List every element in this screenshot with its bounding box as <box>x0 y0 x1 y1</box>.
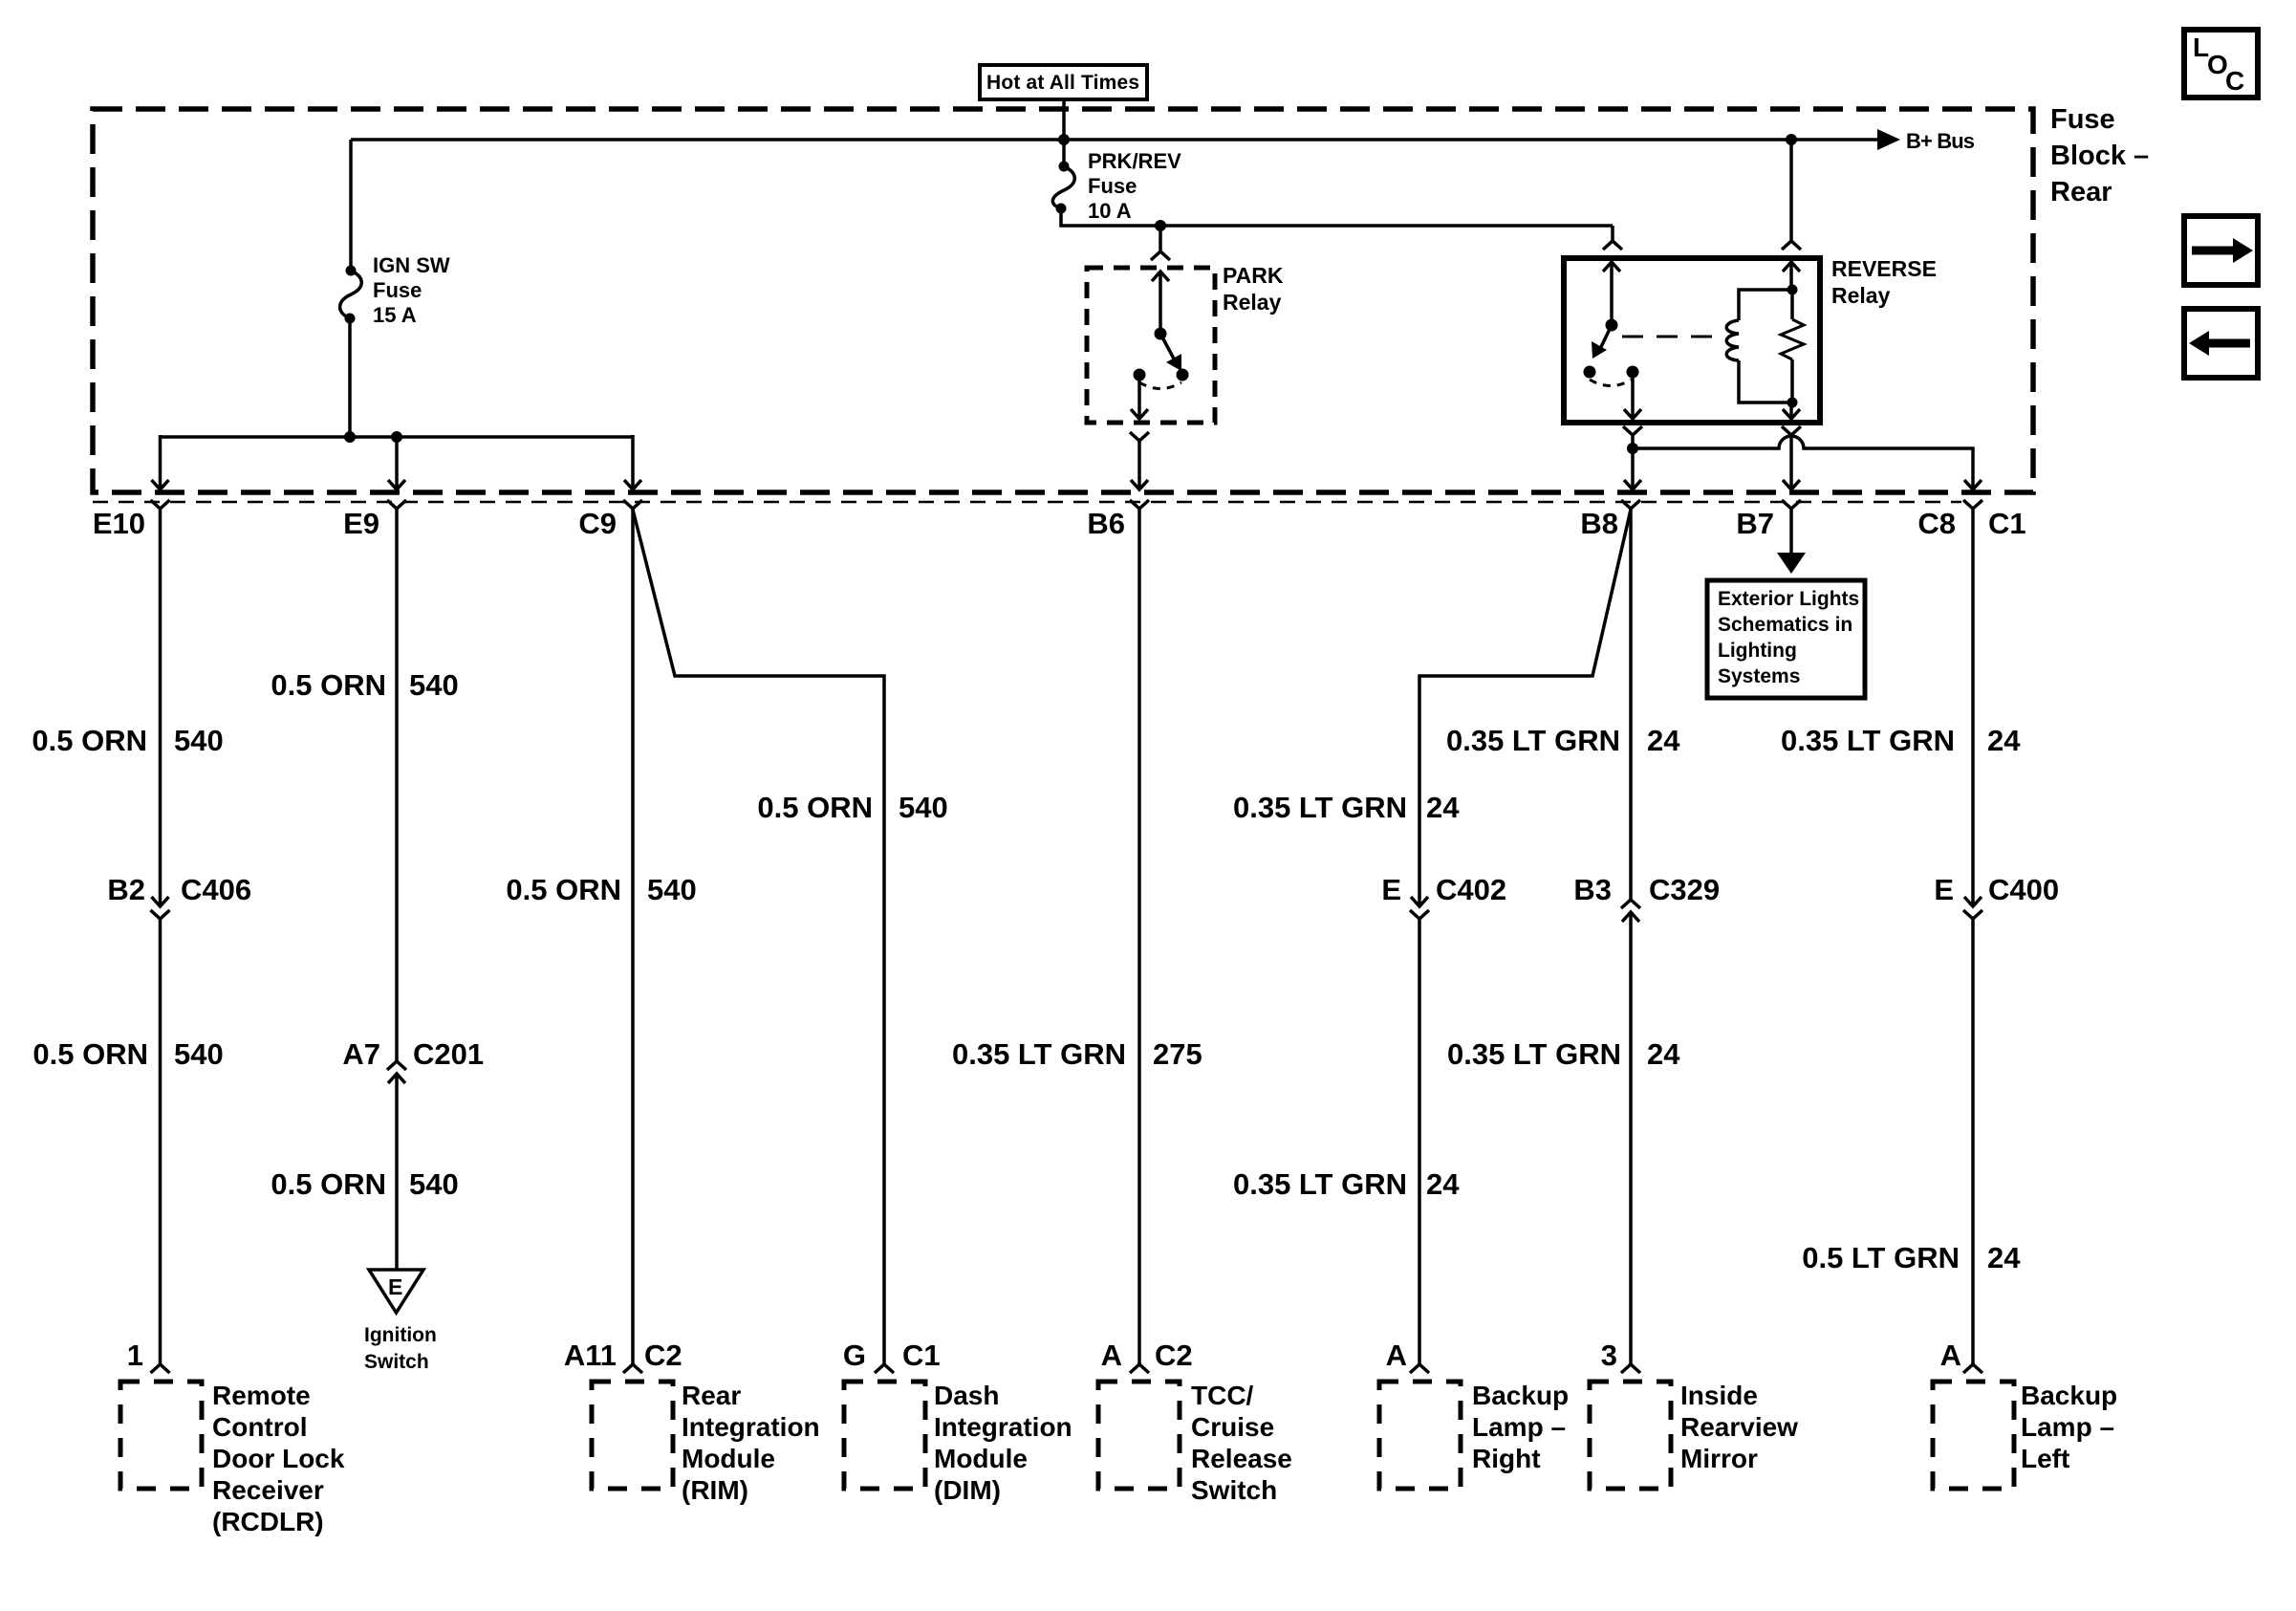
svg-text:C2: C2 <box>644 1339 682 1372</box>
svg-text:24: 24 <box>1426 791 1460 824</box>
wire E9 column <box>387 509 406 1270</box>
svg-text:540: 540 <box>174 1037 224 1071</box>
pin 3 inside rearview mirror <box>1601 1339 1617 1372</box>
svg-text:C: C <box>2225 66 2244 96</box>
svg-text:B8: B8 <box>1580 507 1618 540</box>
wire from Hot box to bus <box>1062 99 1066 140</box>
svg-text:Fuse: Fuse <box>373 278 422 302</box>
svg-text:0.35 LT GRN: 0.35 LT GRN <box>1233 1167 1407 1201</box>
svg-text:E10: E10 <box>93 507 145 540</box>
svg-text:24: 24 <box>1987 1241 2021 1274</box>
svg-text:B7: B7 <box>1736 507 1774 540</box>
pin A backup lamp right <box>1386 1339 1407 1372</box>
svg-text:Cruise: Cruise <box>1191 1412 1274 1442</box>
svg-text:Hot at All Times: Hot at All Times <box>986 72 1139 94</box>
svg-text:C9: C9 <box>578 507 617 540</box>
label 0.35 LT GRN 24 (B8 upper) <box>1446 724 1680 757</box>
svg-text:C406: C406 <box>181 873 251 906</box>
svg-text:Left: Left <box>2021 1444 2069 1473</box>
label 0.5 LT GRN 24 (C1 lower) <box>1802 1241 2021 1274</box>
svg-text:Lamp –: Lamp – <box>2021 1412 2114 1442</box>
svg-text:15 A: 15 A <box>373 303 417 327</box>
component TCC/Cruise Release Switch <box>1098 1381 1292 1505</box>
svg-text:PARK: PARK <box>1223 263 1284 288</box>
wire bus down to IGN SW fuse <box>349 140 353 271</box>
svg-text:Fuse: Fuse <box>1088 174 1137 198</box>
label 0.35 LT GRN 24 (lamp right upper) <box>1233 791 1460 824</box>
B+ bus wire <box>351 138 1879 142</box>
wire IGN SW fuse to distribution <box>348 318 352 437</box>
svg-text:0.5 ORN: 0.5 ORN <box>757 791 873 824</box>
connector E C402 <box>1381 873 1506 906</box>
wire junction to C1 with hop over B7 <box>1633 436 1973 490</box>
svg-text:540: 540 <box>647 873 697 906</box>
svg-text:C329: C329 <box>1649 873 1720 906</box>
svg-text:TCC/: TCC/ <box>1191 1381 1254 1410</box>
connector chevrons below edge <box>151 500 1983 509</box>
label 0.5 ORN 540 (E9 lower) <box>271 1167 458 1201</box>
svg-text:C2: C2 <box>1155 1339 1193 1372</box>
fuse IGN SW 15 A <box>340 253 450 327</box>
node: distribution/E9 junction <box>391 431 402 443</box>
svg-text:540: 540 <box>174 724 224 757</box>
svg-text:0.35 LT GRN: 0.35 LT GRN <box>1447 1037 1621 1071</box>
svg-text:C1: C1 <box>902 1339 941 1372</box>
arrows at fuse block edge E10 E9 C9 <box>152 480 642 490</box>
wire C1 column to backup lamp left <box>1963 509 1982 1373</box>
svg-text:Relay: Relay <box>1223 290 1282 315</box>
ground symbol E Ignition Switch <box>364 1270 437 1373</box>
fuse PRK/REV 10 A <box>1052 140 1181 223</box>
svg-text:Right: Right <box>1472 1444 1541 1473</box>
B+ bus arrowhead and label <box>1877 129 1975 153</box>
svg-text:IGN SW: IGN SW <box>373 253 450 277</box>
svg-text:C8: C8 <box>1917 507 1956 540</box>
REVERSE relay actuation link (dashed) <box>1622 336 1723 338</box>
svg-text:Relay: Relay <box>1831 283 1891 308</box>
svg-text:Schematics in: Schematics in <box>1718 614 1852 636</box>
connector row labels under fuse block <box>93 507 2026 540</box>
svg-text:Block –: Block – <box>2050 141 2149 171</box>
svg-text:0.5 ORN: 0.5 ORN <box>271 1167 386 1201</box>
connector B3 C329 <box>1573 873 1720 906</box>
svg-text:Control: Control <box>212 1412 308 1442</box>
svg-text:Exterior Lights: Exterior Lights <box>1718 588 1859 610</box>
node: bus/B7 junction <box>1786 134 1797 145</box>
REVERSE relay coil branch <box>1726 262 1800 408</box>
svg-text:A11: A11 <box>564 1339 617 1372</box>
svg-text:C201: C201 <box>413 1037 484 1071</box>
PARK relay switch <box>1134 272 1189 389</box>
label 0.35 LT GRN 24 (C1 upper) <box>1781 724 2021 757</box>
svg-text:REVERSE: REVERSE <box>1831 256 1937 281</box>
svg-text:Backup: Backup <box>2021 1381 2117 1410</box>
svg-text:Lamp –: Lamp – <box>1472 1412 1566 1442</box>
svg-text:Receiver: Receiver <box>212 1475 324 1505</box>
svg-text:C1: C1 <box>1988 507 2026 540</box>
label 0.5 ORN 540 (E10 upper) <box>32 724 223 757</box>
wire B7 column to exterior lights reference <box>1777 509 1806 574</box>
label 0.5 ORN 540 (E10 lower) <box>32 1037 223 1071</box>
label 0.35 LT GRN 24 (lamp right lower) <box>1233 1167 1460 1201</box>
pins G C1 DIM <box>843 1339 941 1372</box>
svg-text:24: 24 <box>1647 724 1680 757</box>
wire feed to REVERSE relay switch <box>1603 226 1622 250</box>
relay REVERSE (solid box) <box>1564 256 1937 423</box>
svg-text:Integration: Integration <box>682 1412 820 1442</box>
svg-text:540: 540 <box>409 668 459 702</box>
svg-text:3: 3 <box>1601 1339 1617 1372</box>
svg-text:G: G <box>843 1339 866 1372</box>
svg-text:Inside: Inside <box>1680 1381 1758 1410</box>
pins A C2 TCC <box>1101 1339 1193 1372</box>
svg-text:0.35 LT GRN: 0.35 LT GRN <box>1233 791 1407 824</box>
wire REVERSE coil output B7 <box>1782 403 1801 490</box>
svg-text:Rear: Rear <box>2050 177 2112 207</box>
svg-text:Remote: Remote <box>212 1381 311 1410</box>
wire bus down to REVERSE relay coil B7 <box>1782 140 1801 250</box>
svg-text:540: 540 <box>899 791 948 824</box>
component Backup Lamp - Left <box>1933 1381 2117 1489</box>
wire REVERSE switch output <box>1623 372 1642 448</box>
component Rear Integration Module (RIM) <box>592 1381 820 1505</box>
svg-text:0.5 ORN: 0.5 ORN <box>32 724 147 757</box>
wire PARK relay output B6 <box>1130 375 1149 490</box>
svg-text:Backup: Backup <box>1472 1381 1569 1410</box>
component Dash Integration Module (DIM) <box>844 1381 1072 1505</box>
svg-text:B6: B6 <box>1087 507 1125 540</box>
wire C9 column to RIM <box>623 509 642 1373</box>
label Fuse Block - Rear <box>2050 104 2149 207</box>
svg-text:Release: Release <box>1191 1444 1292 1473</box>
svg-text:(RCDLR): (RCDLR) <box>212 1507 324 1536</box>
svg-text:A: A <box>1386 1339 1407 1372</box>
svg-text:C400: C400 <box>1988 873 2059 906</box>
distribution wire to E10 E9 C9 <box>161 435 634 490</box>
svg-text:Switch: Switch <box>1191 1475 1277 1505</box>
svg-text:0.5 ORN: 0.5 ORN <box>506 873 621 906</box>
svg-text:B2: B2 <box>107 873 145 906</box>
svg-text:Fuse: Fuse <box>2050 104 2115 135</box>
fuse block - rear (dashed outline) <box>93 109 2033 492</box>
label 0.5 ORN 540 (C9) <box>506 873 696 906</box>
svg-text:1: 1 <box>127 1339 143 1372</box>
svg-text:Module: Module <box>934 1444 1028 1473</box>
REVERSE relay switch <box>1584 262 1639 386</box>
connector face line (thin dashed) <box>93 501 1961 504</box>
svg-text:Mirror: Mirror <box>1680 1444 1758 1473</box>
wire E10 column <box>151 509 170 1373</box>
node: park relay feed junction <box>1155 220 1166 231</box>
node: B8 junction <box>1627 443 1638 454</box>
svg-text:A: A <box>1101 1339 1122 1372</box>
component Inside Rearview Mirror <box>1590 1381 1798 1489</box>
svg-text:(RIM): (RIM) <box>682 1475 748 1505</box>
svg-text:24: 24 <box>1647 1037 1680 1071</box>
label 0.5 ORN 540 (E9 upper) <box>271 668 458 702</box>
svg-text:10 A: 10 A <box>1088 199 1132 223</box>
svg-text:C402: C402 <box>1436 873 1506 906</box>
pin A backup lamp left <box>1940 1339 1961 1372</box>
component Remote Control Door Lock Receiver (RCDLR) <box>120 1381 345 1536</box>
wire PRK/REV fuse output to relays <box>1061 208 1613 226</box>
Hot at All Times box <box>980 65 1147 99</box>
svg-text:E: E <box>1381 873 1401 906</box>
svg-text:Integration: Integration <box>934 1412 1072 1442</box>
wire B8 to edge <box>1624 448 1641 490</box>
svg-text:A7: A7 <box>342 1037 380 1071</box>
svg-text:0.5 ORN: 0.5 ORN <box>271 668 386 702</box>
node: bus/hot junction <box>1058 134 1070 145</box>
svg-text:0.35 LT GRN: 0.35 LT GRN <box>1446 724 1620 757</box>
label 0.35 LT GRN 275 (B6) <box>952 1037 1202 1071</box>
label 0.35 LT GRN 24 (B8 lower) <box>1447 1037 1680 1071</box>
svg-text:A: A <box>1940 1339 1961 1372</box>
svg-text:Systems: Systems <box>1718 665 1800 687</box>
svg-text:Rearview: Rearview <box>1680 1412 1798 1442</box>
REVERSE relay resistor <box>1781 290 1804 403</box>
svg-text:Rear: Rear <box>682 1381 741 1410</box>
svg-text:24: 24 <box>1987 724 2021 757</box>
connector E C400 <box>1934 873 2059 906</box>
pins A11 C2 RIM <box>564 1339 682 1372</box>
connector A7 C201 <box>342 1037 484 1071</box>
svg-text:540: 540 <box>409 1167 459 1201</box>
wire B6 column to TCC <box>1130 509 1149 1373</box>
svg-text:0.35 LT GRN: 0.35 LT GRN <box>952 1037 1126 1071</box>
relay PARK (dashed box) <box>1087 263 1284 423</box>
svg-text:Ignition: Ignition <box>364 1324 437 1346</box>
svg-text:E: E <box>388 1274 402 1299</box>
reference box Exterior Lights Schematics in Lighting Systems <box>1707 580 1865 698</box>
svg-text:275: 275 <box>1153 1037 1202 1071</box>
svg-text:Switch: Switch <box>364 1351 429 1373</box>
arrow C1 at edge <box>1964 480 1982 490</box>
svg-text:(DIM): (DIM) <box>934 1475 1001 1505</box>
svg-text:B+ Bus: B+ Bus <box>1906 129 1975 153</box>
wire B8 column to mirror <box>1621 509 1640 1373</box>
icon arrow right box <box>2184 216 2258 285</box>
svg-text:Door Lock: Door Lock <box>212 1444 345 1473</box>
svg-text:Module: Module <box>682 1444 775 1473</box>
svg-text:0.35 LT GRN: 0.35 LT GRN <box>1781 724 1955 757</box>
LOC icon box <box>2184 30 2258 98</box>
icon arrow left box <box>2184 309 2258 378</box>
wire B8 branch to backup lamp right <box>1410 510 1631 1373</box>
connector B2 C406 <box>107 873 251 906</box>
label 0.5 ORN 540 (DIM branch) <box>757 791 947 824</box>
svg-text:E: E <box>1934 873 1954 906</box>
svg-text:24: 24 <box>1426 1167 1460 1201</box>
svg-text:E9: E9 <box>343 507 379 540</box>
svg-text:Lighting: Lighting <box>1718 640 1797 662</box>
node: distribution/fuse junction <box>344 431 356 443</box>
svg-text:0.5 ORN: 0.5 ORN <box>32 1037 148 1071</box>
svg-text:0.5 LT GRN: 0.5 LT GRN <box>1802 1241 1960 1274</box>
wire down to PARK relay <box>1151 226 1170 260</box>
svg-text:PRK/REV: PRK/REV <box>1088 149 1181 173</box>
svg-text:Dash: Dash <box>934 1381 999 1410</box>
pin 1 RCDLR <box>127 1339 143 1372</box>
wire C9 branch to DIM <box>633 510 894 1373</box>
component Backup Lamp - Right <box>1379 1381 1569 1489</box>
svg-text:B3: B3 <box>1573 873 1612 906</box>
